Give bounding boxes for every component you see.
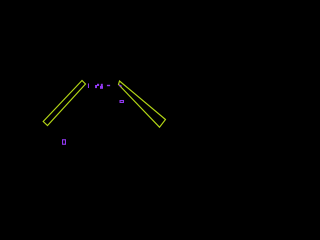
node N label: charge dash [107, 85, 110, 86]
node N label: glyph 2 [101, 84, 103, 86]
wire: purple half-bond tick at right wedge tip [119, 85, 122, 87]
node N label: left vertical stroke [88, 83, 89, 88]
node O (lower left letter) [63, 140, 66, 145]
node O (right, flattened letter) [120, 101, 123, 103]
node N label: glyph 1 [95, 85, 97, 88]
wire: right hollow wedge bond [119, 81, 166, 127]
wire: left hollow wedge bond [43, 81, 85, 126]
